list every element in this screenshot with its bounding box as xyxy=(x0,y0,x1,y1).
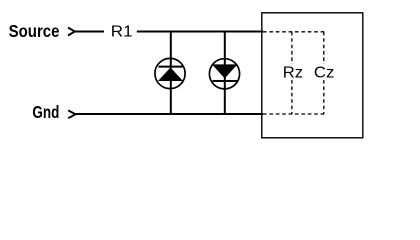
diode D1 triangle (cathode up) xyxy=(158,68,183,82)
dashed element Rz vertical (lower) xyxy=(291,80,293,114)
diode D1 circle xyxy=(155,58,185,88)
dashed element Rz vertical (upper) xyxy=(291,32,293,64)
diode D2 circle xyxy=(209,59,239,89)
diode D2 cathode bar xyxy=(213,80,238,82)
Source input chevron xyxy=(68,28,75,36)
dashed element Cz vertical (lower) xyxy=(323,80,325,114)
dashed element Cz vertical (upper) xyxy=(323,32,325,64)
svg-text:Rz: Rz xyxy=(283,65,304,82)
Gnd input chevron xyxy=(68,110,75,118)
svg-text:Source: Source xyxy=(9,21,60,41)
diode D2 triangle (cathode down) xyxy=(212,64,238,78)
instrument box xyxy=(262,13,363,138)
wire: D2 vertical xyxy=(224,32,226,115)
diode D1 cathode bar xyxy=(159,66,183,68)
svg-text:R1: R1 xyxy=(111,23,133,40)
wire: Gnd to box xyxy=(76,113,264,115)
svg-text:Gnd: Gnd xyxy=(32,102,59,122)
dashed wire: input to Rz/Cz top xyxy=(263,31,325,33)
wire: Source to R1 xyxy=(75,31,105,33)
svg-text:Cz: Cz xyxy=(314,65,335,82)
wire: D1 vertical xyxy=(170,32,172,115)
wire: R1 to box xyxy=(137,31,263,33)
dashed wire: gnd to Rz/Cz bottom xyxy=(263,113,325,115)
